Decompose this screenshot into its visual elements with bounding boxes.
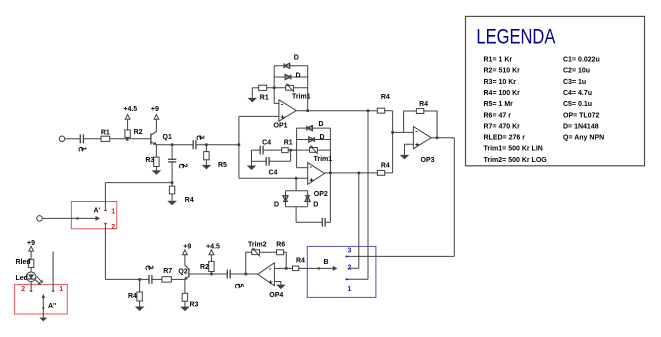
svg-text:OP3: OP3 (421, 157, 435, 164)
svg-text:D= 1N4148: D= 1N4148 (563, 123, 599, 130)
svg-text:+: + (415, 142, 419, 149)
svg-text:D: D (294, 55, 299, 62)
svg-text:Trim1= 500 Kr LIN: Trim1= 500 Kr LIN (484, 146, 543, 153)
svg-text:C5= 0.1u: C5= 0.1u (563, 101, 592, 108)
svg-text:C4= 4.7u: C4= 4.7u (563, 90, 592, 97)
svg-text:+: + (309, 177, 313, 184)
svg-text:R1: R1 (101, 130, 110, 137)
svg-text:R3= 10 Kr: R3= 10 Kr (484, 79, 517, 86)
svg-text:1: 1 (59, 286, 63, 293)
svg-text:Trim1: Trim1 (292, 94, 311, 101)
svg-text:R2: R2 (200, 264, 209, 271)
svg-text:1: 1 (111, 209, 115, 216)
svg-text:R1: R1 (260, 95, 269, 102)
svg-text:+9: +9 (151, 106, 159, 113)
svg-text:C2= 10u: C2= 10u (563, 68, 590, 75)
svg-text:RLED= 276 r: RLED= 276 r (484, 135, 526, 142)
svg-text:C4: C4 (262, 140, 271, 147)
svg-text:OP1: OP1 (274, 122, 288, 129)
svg-text:Rled: Rled (16, 259, 31, 266)
svg-text:R5: R5 (218, 162, 227, 169)
svg-text:D: D (274, 202, 279, 209)
svg-text:A': A' (94, 208, 101, 215)
svg-text:D: D (296, 72, 301, 79)
svg-text:Trim2: Trim2 (248, 241, 267, 248)
svg-text:R7= 470 Kr: R7= 470 Kr (484, 123, 521, 130)
svg-text:B: B (324, 259, 329, 266)
svg-text:D: D (319, 121, 324, 128)
svg-text:R4: R4 (381, 94, 390, 101)
svg-text:Led: Led (16, 275, 28, 282)
svg-text:+4.5: +4.5 (123, 106, 137, 113)
svg-text:3: 3 (348, 248, 352, 255)
svg-text:A'': A'' (48, 303, 57, 310)
svg-text:+9: +9 (183, 243, 191, 250)
svg-text:Trim1: Trim1 (314, 156, 333, 163)
svg-text:D: D (313, 202, 318, 209)
svg-text:OP= TL072: OP= TL072 (563, 112, 599, 119)
svg-text:Q1: Q1 (163, 134, 172, 141)
svg-text:R3: R3 (145, 157, 154, 164)
svg-text:R7: R7 (163, 268, 172, 275)
svg-text:+: + (281, 115, 285, 122)
svg-text:C4: C4 (269, 170, 278, 177)
svg-text:+4.5: +4.5 (206, 243, 220, 250)
svg-text:Q2: Q2 (178, 268, 187, 275)
svg-text:R5= 1 Mr: R5= 1 Mr (484, 101, 514, 108)
svg-text:R4: R4 (296, 257, 305, 264)
svg-text:LEGENDA: LEGENDA (476, 25, 555, 49)
svg-text:D: D (320, 134, 325, 141)
svg-text:R2: R2 (134, 129, 143, 136)
svg-text:2: 2 (111, 224, 115, 231)
svg-text:R4: R4 (419, 101, 428, 108)
svg-text:R3: R3 (190, 301, 199, 308)
svg-text:1: 1 (348, 286, 352, 293)
svg-text:Q= Any NPN: Q= Any NPN (563, 135, 604, 142)
svg-text:R6: R6 (276, 241, 285, 248)
svg-text:C3= 1u: C3= 1u (563, 79, 586, 86)
svg-text:OP2: OP2 (314, 191, 328, 198)
svg-text:2: 2 (21, 286, 25, 293)
svg-text:R1= 1 Kr: R1= 1 Kr (484, 57, 513, 64)
svg-text:R1: R1 (284, 140, 293, 147)
svg-text:R2= 510 Kr: R2= 510 Kr (484, 68, 521, 75)
svg-text:C1= 0.022u: C1= 0.022u (563, 57, 600, 64)
svg-text:+: + (269, 279, 273, 286)
svg-text:OP4: OP4 (269, 292, 283, 299)
svg-text:R4: R4 (381, 162, 390, 169)
svg-text:R4= 100 Kr: R4= 100 Kr (484, 90, 521, 97)
svg-text:R4: R4 (128, 293, 137, 300)
svg-text:R6= 47 r: R6= 47 r (484, 112, 512, 119)
svg-text:Trim2= 500 Kr LOG: Trim2= 500 Kr LOG (484, 157, 548, 164)
svg-text:R4: R4 (185, 197, 194, 204)
